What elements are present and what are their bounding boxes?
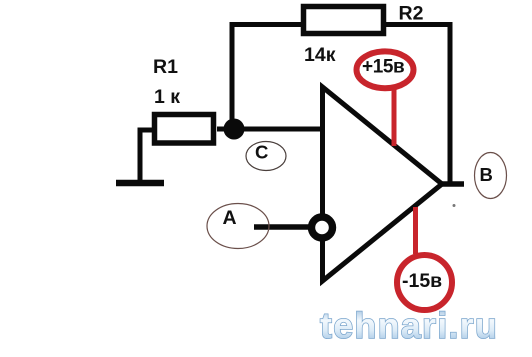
supply +15в red line — [392, 89, 397, 146]
supply -15в circle — [397, 255, 452, 310]
resistor R2 — [304, 7, 384, 34]
wire: R2 right to corner — [386, 22, 452, 27]
wire: right vertical down to output — [448, 22, 453, 186]
svg-text:-15в: -15в — [402, 270, 442, 292]
node B ellipse — [475, 153, 507, 199]
node C ellipse — [246, 142, 286, 171]
svg-text:+15в: +15в — [362, 57, 404, 78]
label R2 — [399, 3, 424, 25]
label -15в — [402, 270, 442, 292]
supply +15в ellipse — [357, 51, 414, 88]
node junction dot — [224, 119, 245, 140]
label R1 — [153, 56, 178, 78]
non-inverting input terminal (open circle) — [312, 217, 333, 238]
node A ellipse — [207, 204, 269, 249]
wire: junction up to feedback — [230, 22, 235, 129]
watermark tehnari.ru — [320, 305, 498, 346]
node A letter — [223, 207, 237, 229]
wire: output stub — [442, 181, 464, 187]
wire: junction to inverting input — [244, 127, 322, 132]
ground — [116, 180, 164, 187]
wire: A to non-inverting input — [254, 224, 312, 230]
wire: R1 left stub — [138, 128, 154, 133]
op-amp U1 — [323, 87, 443, 281]
label +15в — [362, 57, 404, 78]
svg-text:A: A — [223, 207, 237, 229]
svg-text:14к: 14к — [304, 44, 336, 66]
supply -15в red line — [413, 207, 418, 254]
svg-text:1 к: 1 к — [154, 86, 180, 108]
svg-text:R1: R1 — [153, 56, 178, 78]
node B letter — [480, 164, 493, 185]
svg-text:C: C — [255, 142, 268, 163]
wire: vertical down to ground — [138, 128, 143, 183]
node C letter — [255, 142, 268, 163]
resistor R1 — [155, 115, 214, 144]
svg-text:B: B — [480, 164, 493, 185]
value 1 к — [154, 86, 180, 108]
svg-text:R2: R2 — [399, 3, 424, 25]
wire: top horizontal to R2 — [230, 22, 303, 27]
value 14к — [304, 44, 336, 66]
wire: R1 right to junction — [217, 127, 234, 132]
stray dot — [453, 204, 456, 207]
svg-text:tehnari.ru: tehnari.ru — [320, 305, 498, 346]
